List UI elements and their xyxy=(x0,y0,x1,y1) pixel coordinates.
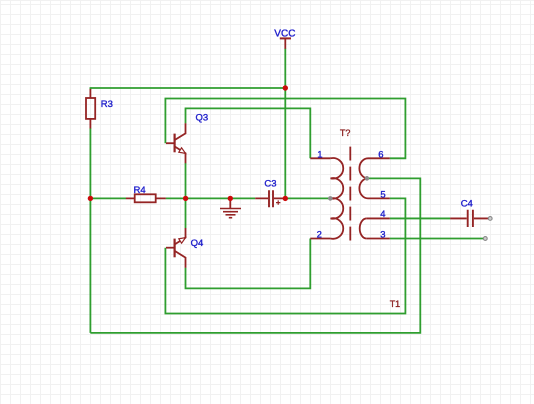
svg-text:5: 5 xyxy=(380,189,385,200)
pin 1 lead xyxy=(310,157,330,159)
secondary winding 4-3 xyxy=(360,218,367,238)
junction VCC rail xyxy=(283,85,288,90)
pin 3 lead xyxy=(366,238,390,240)
svg-text:VCC: VCC xyxy=(274,29,295,40)
transistor Q4 xyxy=(166,228,186,268)
junction emitters xyxy=(183,196,188,201)
svg-text:3: 3 xyxy=(380,229,385,240)
primary winding xyxy=(331,158,344,239)
power VCC symbol xyxy=(280,38,291,48)
svg-text:C4: C4 xyxy=(461,198,473,209)
node tap primary xyxy=(328,196,333,201)
junction ground xyxy=(228,196,233,201)
wire emitter column x=185.6 xyxy=(185,163,187,228)
resistor R4 xyxy=(126,194,166,202)
svg-text:C3: C3 xyxy=(264,179,276,190)
capacitor C3 xyxy=(255,190,283,207)
transformer T1 xyxy=(310,147,390,241)
svg-text:R4: R4 xyxy=(134,185,146,196)
secondary winding 6-5 xyxy=(359,158,368,198)
wire main horizontal y=198.4 xyxy=(90,197,330,199)
wire Q3 base to pin6 xyxy=(165,99,405,159)
node wire end C4 xyxy=(488,217,492,221)
wire top rail y=88 xyxy=(90,87,285,89)
pin 5 lead xyxy=(368,197,390,199)
core dashed line xyxy=(349,147,351,241)
wire pin4 to C4 xyxy=(390,217,451,219)
resistor R3 xyxy=(86,89,95,129)
pin 4 lead xyxy=(366,217,390,219)
svg-text:1: 1 xyxy=(317,150,322,161)
junction C3 right xyxy=(283,196,288,201)
wire Q4 base to pin5 xyxy=(165,198,405,313)
wire Q3 collector to pin1 xyxy=(186,108,311,158)
wire VCC vertical x=285.3 xyxy=(284,49,286,199)
transistor Q3 xyxy=(166,123,186,163)
svg-text:Q4: Q4 xyxy=(191,238,204,249)
wire R3/left column x=90.4 xyxy=(89,87,91,333)
ground xyxy=(220,198,241,217)
pin 6 lead xyxy=(368,157,390,159)
svg-text:T1: T1 xyxy=(390,299,401,309)
wire pin3 stub xyxy=(390,238,484,240)
svg-text:R3: R3 xyxy=(101,99,113,110)
pin 2 lead xyxy=(310,238,330,240)
svg-text:6: 6 xyxy=(378,150,383,161)
wire Q4 collector to pin2 xyxy=(186,239,311,289)
svg-text:Q3: Q3 xyxy=(196,113,209,124)
svg-text:4: 4 xyxy=(380,209,385,220)
node wire end pin3 xyxy=(483,237,487,241)
svg-text:2: 2 xyxy=(317,230,322,241)
junction R4 left xyxy=(88,196,93,201)
capacitor C4 xyxy=(450,210,489,227)
node tap secondary xyxy=(365,176,370,181)
svg-text:T?: T? xyxy=(340,128,351,138)
wire tap net bottom loop xyxy=(90,178,420,333)
